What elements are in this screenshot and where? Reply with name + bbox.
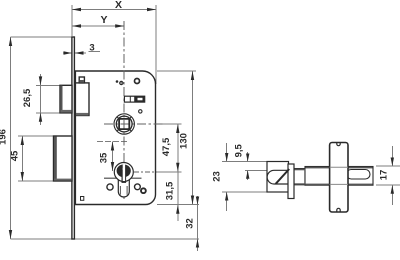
svg-text:23: 23 <box>212 171 223 182</box>
svg-text:130: 130 <box>179 133 190 149</box>
svg-text:45: 45 <box>10 150 21 161</box>
svg-text:35: 35 <box>98 152 109 163</box>
svg-text:X: X <box>115 0 122 11</box>
svg-text:31,5: 31,5 <box>165 181 176 200</box>
svg-text:32: 32 <box>185 218 196 229</box>
svg-text:47,5: 47,5 <box>161 137 172 156</box>
svg-text:Y: Y <box>100 14 107 26</box>
svg-text:17: 17 <box>379 170 390 181</box>
svg-text:26,5: 26,5 <box>22 88 33 107</box>
svg-text:9,5: 9,5 <box>233 143 244 157</box>
svg-text:196: 196 <box>0 129 9 145</box>
svg-text:3: 3 <box>89 43 94 54</box>
